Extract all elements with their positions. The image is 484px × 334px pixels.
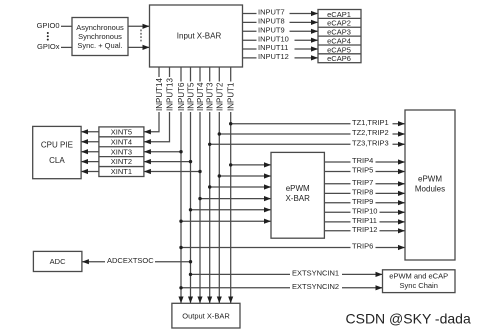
svg-text:INPUT8: INPUT8: [258, 17, 285, 26]
svg-text:INPUT14: INPUT14: [155, 78, 164, 111]
svg-text:CLA: CLA: [49, 156, 65, 165]
svg-text:INPUT3: INPUT3: [206, 82, 215, 111]
svg-text:EXTSYNCIN2: EXTSYNCIN2: [292, 282, 339, 291]
svg-text:Output X-BAR: Output X-BAR: [182, 311, 230, 320]
svg-text:INPUT13: INPUT13: [166, 78, 175, 111]
svg-text:TZ1,TRIP1: TZ1,TRIP1: [352, 118, 389, 127]
svg-text:CPU PIE: CPU PIE: [41, 141, 73, 150]
svg-text:TRIP12: TRIP12: [352, 225, 377, 234]
svg-text:XINT4: XINT4: [111, 137, 132, 146]
svg-text:INPUT5: INPUT5: [187, 82, 196, 111]
svg-text:eCAP2: eCAP2: [327, 19, 351, 28]
svg-text:TRIP9: TRIP9: [352, 197, 373, 206]
svg-text:XINT5: XINT5: [111, 127, 132, 136]
svg-text:GPIOx: GPIOx: [37, 42, 60, 51]
svg-text:INPUT10: INPUT10: [258, 34, 289, 43]
svg-text:XINT2: XINT2: [111, 157, 132, 166]
svg-text:TRIP5: TRIP5: [352, 166, 373, 175]
svg-text:eCAP6: eCAP6: [327, 54, 351, 63]
svg-text:ePWM: ePWM: [418, 175, 442, 184]
svg-text:TZ3,TRIP3: TZ3,TRIP3: [352, 139, 389, 148]
svg-text:INPUT12: INPUT12: [258, 52, 289, 61]
svg-text:Sync Chain: Sync Chain: [400, 281, 438, 290]
svg-text:GPIO0: GPIO0: [37, 21, 60, 30]
svg-text:XINT1: XINT1: [111, 167, 132, 176]
svg-text:ADCEXTSOC: ADCEXTSOC: [107, 256, 154, 265]
svg-text:CSDN @SKY -dada: CSDN @SKY -dada: [346, 311, 471, 327]
svg-text:eCAP1: eCAP1: [327, 10, 351, 19]
svg-text:Synchronous: Synchronous: [78, 32, 122, 41]
svg-text:eCAP5: eCAP5: [327, 45, 351, 54]
svg-text:EXTSYNCIN1: EXTSYNCIN1: [292, 269, 339, 278]
svg-text:TRIP6: TRIP6: [352, 242, 373, 251]
svg-text:TRIP8: TRIP8: [352, 188, 373, 197]
svg-text:TRIP11: TRIP11: [352, 216, 377, 225]
svg-text:TZ2,TRIP2: TZ2,TRIP2: [352, 128, 389, 137]
svg-text:Asynchronous: Asynchronous: [76, 23, 124, 32]
svg-text:ePWM: ePWM: [286, 184, 310, 193]
svg-text:ePWM and eCAP: ePWM and eCAP: [389, 271, 448, 280]
svg-text:XINT3: XINT3: [111, 147, 132, 156]
svg-text:INPUT1: INPUT1: [227, 82, 236, 111]
svg-text:Modules: Modules: [415, 185, 445, 194]
svg-text:TRIP7: TRIP7: [352, 178, 373, 187]
svg-text:ADC: ADC: [50, 257, 66, 266]
svg-text:Sync. + Qual.: Sync. + Qual.: [77, 41, 122, 50]
svg-text:INPUT11: INPUT11: [258, 43, 288, 52]
svg-text:INPUT9: INPUT9: [258, 26, 285, 35]
svg-text:eCAP3: eCAP3: [327, 28, 351, 37]
svg-text:eCAP4: eCAP4: [327, 36, 351, 45]
svg-text:X-BAR: X-BAR: [285, 194, 310, 203]
svg-text:Input X-BAR: Input X-BAR: [177, 31, 222, 40]
svg-text:INPUT4: INPUT4: [196, 82, 205, 111]
svg-text:INPUT6: INPUT6: [177, 82, 186, 111]
svg-text:TRIP4: TRIP4: [352, 156, 373, 165]
svg-text:TRIP10: TRIP10: [352, 207, 377, 216]
svg-text:INPUT2: INPUT2: [215, 82, 224, 111]
svg-text:INPUT7: INPUT7: [258, 8, 285, 17]
